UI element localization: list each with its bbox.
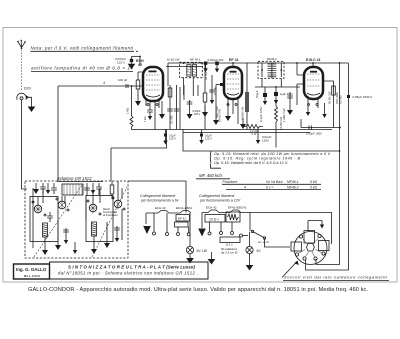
svg-text:Vo Va Baxl: Vo Va Baxl: [266, 180, 283, 184]
svg-text:EF 41: EF 41: [178, 217, 186, 221]
svg-text:42: 42: [138, 63, 142, 67]
svg-text:ECH 42: ECH 42: [155, 206, 166, 210]
svg-text:GALLO-CONDOR - Apparecchio a: GALLO-CONDOR - Apparecchio autoradio mod…: [28, 287, 368, 293]
svg-text:0,047μF 460: 0,047μF 460: [208, 58, 224, 62]
svg-text:da 2,5 cm Ø: da 2,5 cm Ø: [221, 251, 238, 255]
svg-text:125 V: 125 V: [117, 61, 125, 65]
svg-text:1 kΩ: 1 kΩ: [143, 117, 147, 122]
svg-text:0,1μF 125V: 0,1μF 125V: [259, 106, 263, 122]
svg-text:125 V: 125 V: [194, 112, 201, 116]
svg-text:50 kΩ 1W: 50 kΩ 1W: [328, 91, 332, 104]
svg-text:125 V: 125 V: [169, 137, 176, 141]
svg-text:MF. 460 kc/s: MF. 460 kc/s: [199, 173, 223, 178]
svg-text:5kΩ ½W: 5kΩ ½W: [215, 106, 219, 118]
svg-text:6V. 1W.: 6V. 1W.: [197, 249, 208, 253]
svg-text:Op. 5-15: filamenti reist. da: Op. 5-15: filamenti reist. da 10Ω 1W per…: [214, 152, 330, 156]
svg-text:Nota: per il 6 V. vedi collega: Nota: per il 6 V. vedi collegamenti fila…: [31, 46, 137, 51]
svg-text:Collegamenti filamenti: Collegamenti filamenti: [140, 194, 176, 198]
svg-text:Posizione: Posizione: [223, 180, 238, 184]
svg-text:4: 4: [103, 81, 105, 85]
svg-text:100 pF: 100 pF: [118, 78, 128, 82]
svg-text:EF41+EB41: EF41+EB41: [176, 206, 193, 210]
svg-text:S I N T O N I Z Z A T O R E: S I N T O N I Z Z A T O R E U L T R A - …: [68, 265, 196, 270]
svg-text:0,05μF 1500: 0,05μF 1500: [306, 132, 322, 136]
svg-text:0,05μF 1500 V: 0,05μF 1500 V: [353, 95, 373, 99]
svg-text:MF46-1: MF46-1: [287, 180, 299, 184]
svg-text:4: 4: [244, 185, 246, 189]
svg-text:6 v =: 6 v =: [266, 185, 273, 189]
svg-text:Op. 5-15: Reg. cycle regolator: Op. 5-15: Reg. cycle regolatore 1946 - B: [214, 157, 300, 161]
svg-text:1000: 1000: [24, 87, 31, 91]
svg-text:25 kΩ: 25 kΩ: [204, 71, 208, 80]
svg-text:1 MΩ: 1 MΩ: [126, 108, 130, 114]
svg-text:MF46-2: MF46-2: [287, 185, 299, 189]
svg-text:antifiore lampadina di 40 cm Ø: antifiore lampadina di 40 cm Ø 0,8 × 14: [31, 66, 134, 71]
svg-text:1μμF 300V: 1μμF 300V: [280, 92, 293, 96]
svg-text:E.B.C 41: E.B.C 41: [306, 58, 321, 62]
svg-text:6V.: 6V.: [257, 249, 262, 253]
svg-text:per funzionamento a 6v: per funzionamento a 6v: [140, 199, 179, 203]
svg-text:Ing. G. GALLO: Ing. G. GALLO: [16, 267, 47, 272]
svg-text:5 kΩ: 5 kΩ: [310, 185, 318, 189]
svg-text:MF 46-1: MF 46-1: [190, 58, 201, 62]
svg-text:EF41+EBC41: EF41+EBC41: [228, 206, 247, 210]
svg-text:125 V: 125 V: [205, 137, 212, 141]
svg-text:50μμF: 50μμF: [255, 90, 259, 98]
svg-text:MILANO: MILANO: [24, 274, 41, 278]
svg-text:Zoccoli visti dal lato saldatu: Zoccoli visti dal lato saldature collega…: [283, 275, 387, 280]
svg-text:6,3 v.: 6,3 v.: [226, 243, 233, 247]
svg-text:Induttore GR 1512: Induttore GR 1512: [57, 176, 92, 181]
svg-text:VOLUME: VOLUME: [335, 92, 339, 104]
svg-text:125V: 125V: [262, 139, 269, 143]
svg-text:dal N°18051 in poi - Schema el: dal N°18051 in poi - Schema elettrico co…: [58, 271, 198, 276]
svg-text:EF 41: EF 41: [229, 58, 239, 62]
svg-text:5 kΩ: 5 kΩ: [310, 180, 318, 184]
svg-text:10 kΩ 1W: 10 kΩ 1W: [167, 58, 180, 62]
svg-text:1 MΩ ¼W: 1 MΩ ¼W: [282, 108, 286, 122]
svg-text:al funzionam.: al funzionam.: [103, 213, 119, 217]
svg-text:10 Ω ≈: 10 Ω ≈: [209, 218, 219, 222]
svg-text:Collegamenti filamenti: Collegamenti filamenti: [199, 194, 235, 198]
svg-text:ECH 42: ECH 42: [206, 206, 217, 210]
svg-text:per funzionamento a 12V: per funzionamento a 12V: [199, 199, 241, 203]
svg-text:0,3MΩ ¼W: 0,3MΩ ¼W: [241, 106, 245, 120]
svg-text:Op. 5-15: Variabili reist. da: Op. 5-15: Variabili reist. da 6 V: 4,5 Ω…: [214, 161, 288, 165]
svg-text:int. a ch.: int. a ch.: [258, 240, 270, 244]
svg-text:MF46-2: MF46-2: [267, 57, 277, 61]
